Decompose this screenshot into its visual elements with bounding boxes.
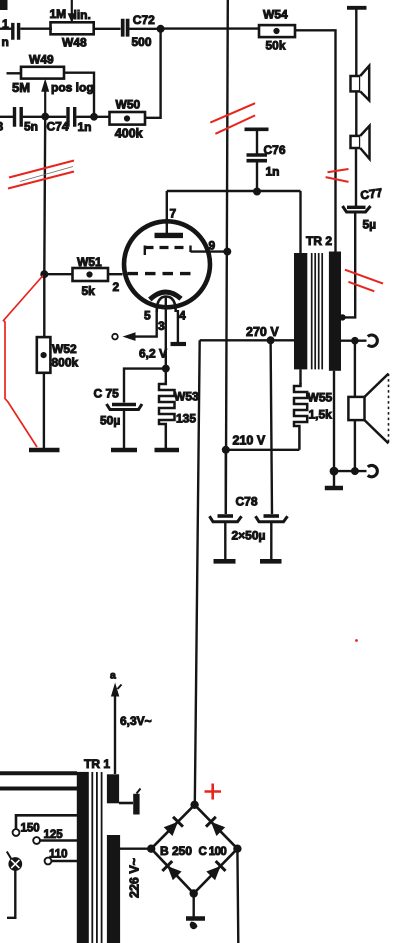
capacitor C78a (left) xyxy=(210,516,242,559)
triode heater xyxy=(157,297,176,313)
wire TR2 secondary tap2 to output terminal xyxy=(341,340,367,342)
wire heater winding to chassis xyxy=(119,802,133,805)
wire input to left capacitor xyxy=(0,28,11,30)
terminal output (upper C) xyxy=(368,335,378,346)
node C72/W54 junction xyxy=(157,25,165,33)
svg-text:150: 150 xyxy=(21,823,40,835)
terminal arrow o (heater supply) xyxy=(123,332,136,341)
svg-text:800k: 800k xyxy=(52,356,79,370)
wire between speakers xyxy=(355,91,357,136)
transformer TR1 primary winding xyxy=(77,772,89,943)
potentiometer W54 50k xyxy=(259,8,295,53)
wire C72 to junction xyxy=(130,28,161,30)
ground (C75) xyxy=(111,448,137,453)
speaker LS1 xyxy=(351,66,370,101)
wire junction row to output terminal xyxy=(334,470,367,472)
red mark hash group 3 (right, above C77) xyxy=(326,169,349,182)
bridge edge left-top xyxy=(151,805,194,849)
svg-text:6,2 V: 6,2 V xyxy=(139,347,167,361)
wire TR1 secondary to bridge left xyxy=(120,848,151,850)
svg-text:500: 500 xyxy=(132,35,152,49)
svg-text:226 V~: 226 V~ xyxy=(128,858,142,898)
resistor W53 135 (meander) xyxy=(159,381,199,448)
wire tap2 down to speaker LS3 xyxy=(354,341,356,397)
wire to W48 xyxy=(20,28,52,30)
bridge edge top-right xyxy=(195,805,238,849)
wire C74 to W50 xyxy=(76,116,109,118)
svg-text:1: 1 xyxy=(2,17,9,31)
transformer TR2 secondary winding xyxy=(329,252,341,371)
wire bridge top from 270V line xyxy=(194,803,196,805)
svg-text:50k: 50k xyxy=(266,39,286,53)
wire LS2 to C77 xyxy=(355,148,357,206)
ground (bridge) xyxy=(186,919,205,930)
triode screen grid (dashed) xyxy=(145,246,192,256)
svg-text:W49: W49 xyxy=(29,53,54,67)
svg-text:TR 2: TR 2 xyxy=(306,234,332,248)
potentiometer W50 400k xyxy=(110,97,146,140)
node 210V junction xyxy=(222,446,230,454)
node W49 wiper junction xyxy=(41,113,49,121)
svg-text:4: 4 xyxy=(179,309,186,323)
svg-text:W53: W53 xyxy=(174,390,199,404)
wire mains tap lower xyxy=(0,787,77,791)
wire W48 to C72 xyxy=(94,28,121,30)
scan artifact corner block xyxy=(0,0,8,10)
svg-text:W50: W50 xyxy=(116,97,141,111)
svg-text:5: 5 xyxy=(144,309,151,323)
transformer TR2 core xyxy=(312,253,323,369)
svg-text:1M: 1M xyxy=(50,7,67,21)
triode cathode xyxy=(150,292,181,299)
svg-text:270 V: 270 V xyxy=(246,325,279,339)
potentiometer W48 1M lin xyxy=(50,0,94,50)
svg-text:pos log: pos log xyxy=(51,81,94,95)
red mark hash group 1 (upper left) xyxy=(8,161,74,189)
wire top rail to W54 xyxy=(161,27,259,29)
red mark hash group 2 (top centre) xyxy=(210,103,255,134)
potentiometer W52 800k xyxy=(37,337,79,373)
triode pin 7 lead xyxy=(166,191,168,233)
wire row into 5n cap xyxy=(0,116,13,118)
svg-text:2×50µ: 2×50µ xyxy=(232,529,266,543)
svg-text:110: 110 xyxy=(49,849,68,861)
wire junction left to C75 xyxy=(124,369,166,403)
lamp / switch symbol xyxy=(7,852,21,918)
node W49-right junction xyxy=(90,113,98,121)
svg-text:125: 125 xyxy=(44,829,64,841)
svg-text:W51: W51 xyxy=(77,255,102,269)
svg-text:C 100: C 100 xyxy=(199,846,227,858)
wire cathode junction to W53 xyxy=(165,369,167,382)
ground (C78a) xyxy=(214,559,236,564)
terminal 150 xyxy=(13,815,77,836)
wire 270V corner down to bridge (long) xyxy=(195,340,200,804)
triode control grid (dashed) xyxy=(128,272,197,275)
wire LS3 down to junction xyxy=(354,420,356,471)
terminal output (lower C) xyxy=(368,465,378,476)
node bridge bottom xyxy=(190,889,198,897)
wire 270V rail xyxy=(200,339,294,341)
ground (output) xyxy=(325,486,343,490)
capacitor C72 500 xyxy=(123,13,155,49)
wire mains tap upper xyxy=(0,771,77,775)
red mark polyline (left) xyxy=(4,276,44,448)
wire 210V rail xyxy=(226,449,300,451)
speaker LS3 xyxy=(348,374,388,444)
transformer TR1 core xyxy=(92,772,101,943)
diode D1 (left-top edge) xyxy=(163,817,183,837)
wire W49 wiper line down to W51 junction xyxy=(43,117,46,275)
wire W51 to tube pin 2 xyxy=(108,273,123,275)
wire bridge right down to edge xyxy=(236,849,239,943)
resistor W55 1,5k (meander) xyxy=(294,383,333,450)
capacitor C75 50u xyxy=(94,386,143,427)
svg-text:5µ: 5µ xyxy=(363,218,377,232)
wire junction to W51 xyxy=(44,273,72,275)
node LS3 junction xyxy=(351,467,359,475)
svg-text:2: 2 xyxy=(113,280,120,294)
svg-text:C78: C78 xyxy=(236,495,258,509)
svg-text:n: n xyxy=(2,35,9,49)
diode D4 (bottom-right edge) xyxy=(206,861,226,881)
capacitor C77 5u xyxy=(343,185,384,231)
svg-text:B 250: B 250 xyxy=(160,844,192,858)
transformer TR1 mains winding 226V xyxy=(107,835,120,943)
potentiometer W49 5M pos log xyxy=(7,53,94,117)
node W51 junction xyxy=(40,270,48,278)
terminal 110 xyxy=(45,849,77,865)
capacitor (partial, left edge) value 1n xyxy=(2,17,19,49)
wire centre line junction down to C78 left xyxy=(225,450,227,514)
svg-text:9: 9 xyxy=(209,239,216,253)
svg-text:7: 7 xyxy=(170,207,177,221)
wire ground stub xyxy=(333,471,335,486)
capacitor 5n xyxy=(15,107,39,134)
potentiometer W51 5k xyxy=(73,255,109,298)
wire bridge bottom to ground xyxy=(192,894,194,917)
svg-text:1n: 1n xyxy=(266,165,280,179)
svg-text:C74: C74 xyxy=(47,120,69,134)
wire pin 9 to centre line xyxy=(191,250,228,252)
svg-text:210 V: 210 V xyxy=(233,434,266,448)
node cathode junction xyxy=(162,365,170,373)
wire centre line (long vertical) xyxy=(226,0,228,514)
svg-text:5n: 5n xyxy=(24,120,38,134)
svg-text:W48: W48 xyxy=(62,36,87,50)
node bridge left xyxy=(147,845,155,853)
node 270V junction xyxy=(267,336,275,344)
svg-text:C76: C76 xyxy=(264,143,286,157)
capacitor C78b (right) xyxy=(256,516,288,559)
terminal 125 xyxy=(33,829,77,844)
wire speaker column xyxy=(355,10,357,77)
svg-text:W54: W54 xyxy=(263,8,288,22)
svg-text:C72: C72 xyxy=(133,13,155,27)
svg-text:C 75: C 75 xyxy=(94,386,120,400)
svg-text:3: 3 xyxy=(158,319,165,333)
svg-text:50µ: 50µ xyxy=(100,413,120,427)
svg-text:1,5k: 1,5k xyxy=(309,408,333,422)
svg-text:400k: 400k xyxy=(115,126,143,140)
pencil line in group 1 xyxy=(20,167,73,182)
ground (C78b) xyxy=(260,559,282,564)
svg-text:1n: 1n xyxy=(78,120,92,134)
node C76/anode rail junction xyxy=(253,188,261,196)
ground (W53) xyxy=(155,448,180,453)
diode D3 (bottom-left edge) xyxy=(162,861,182,881)
speaker LS2 xyxy=(351,126,370,159)
chassis terminal pin4 xyxy=(171,342,187,346)
svg-text:5M: 5M xyxy=(12,80,30,95)
node pin 9 junction xyxy=(223,248,231,256)
wire C77 down to TR2 secondary tap1 xyxy=(342,212,355,317)
diode D2 (top-right edge) xyxy=(206,817,226,837)
svg-text:a: a xyxy=(110,670,116,682)
ground (left) xyxy=(29,448,60,453)
bridge edge right-bottom xyxy=(194,849,238,894)
wire anode rail y191 xyxy=(167,190,301,192)
wire cathode down to junction xyxy=(165,297,167,369)
svg-text:135: 135 xyxy=(176,412,196,426)
wire anode rail down to TR2 primary xyxy=(299,191,301,253)
terminal a with up arrow xyxy=(110,670,122,775)
wire W54 right down to TR2 secondary top xyxy=(295,30,336,251)
chassis terminal (heater) xyxy=(133,789,140,815)
svg-text:3: 3 xyxy=(0,120,4,134)
node secondary-ground junction xyxy=(330,467,339,476)
node bridge top xyxy=(190,801,198,809)
bridge edge bottom-left xyxy=(151,849,194,894)
red mark plus sign xyxy=(205,784,222,800)
wire heater pin5 to terminal arrow xyxy=(135,310,157,337)
transformer TR2 primary winding xyxy=(294,253,307,369)
triode U1 envelope xyxy=(124,221,210,307)
wire 5n to C74 xyxy=(23,116,66,118)
wire W49 right side down to C74 row xyxy=(64,73,94,117)
wire W50 right up to C72 junction xyxy=(145,29,161,118)
wire W52 down to ground xyxy=(43,373,45,448)
red speck xyxy=(355,639,358,642)
capacitor C76 1n with top stub terminal xyxy=(245,129,286,191)
node tap2 junction xyxy=(351,337,359,345)
svg-text:6,3V~: 6,3V~ xyxy=(120,714,152,728)
wire W51 junction down to W52 xyxy=(43,274,45,337)
terminal top bar (speaker column) xyxy=(347,6,367,10)
wire TR2 primary bottom to W55 xyxy=(299,369,301,384)
svg-text:lin.: lin. xyxy=(74,8,91,22)
svg-text:W55: W55 xyxy=(308,391,333,405)
svg-text:W52: W52 xyxy=(52,342,77,356)
wire 270V down to C78 right xyxy=(271,340,272,514)
transformer TR1 heater winding 6.3V xyxy=(107,774,119,803)
red mark hash group 4 (right of TR2) xyxy=(345,270,383,292)
wire TR2 secondary bottom down xyxy=(333,371,335,471)
node bridge right xyxy=(233,845,241,853)
svg-text:TR 1: TR 1 xyxy=(84,757,110,771)
wire C75 to ground xyxy=(123,410,125,449)
bridge rectifier B250 C100 xyxy=(147,801,242,898)
capacitor C74 1n xyxy=(47,107,92,134)
svg-text:5k: 5k xyxy=(82,284,96,298)
wire heater pin4 to chassis bar xyxy=(177,310,179,343)
triode anode plate xyxy=(155,233,184,238)
